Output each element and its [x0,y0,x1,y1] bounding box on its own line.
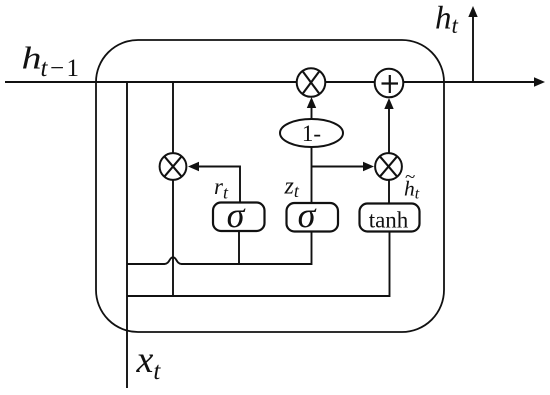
arrowhead into adder [384,98,393,109]
wire A x_t to sigma gates with hop [127,231,312,264]
wire candidate h-tilde vertical [388,109,390,204]
adder circle [375,69,404,98]
svg-text:tanh: tanh [369,208,409,233]
tanh box [360,204,420,232]
wire z vertical through 1- ellipse [311,106,313,203]
wire sigma_r output to left multiplier [198,167,240,203]
wire x_t vertical input [126,82,128,388]
svg-text:1-: 1- [302,121,321,146]
arrowhead h output right [534,77,545,86]
sigma box z gate [287,203,339,232]
cell body rounded rectangle [96,40,444,332]
wire stub to r sigma box [238,230,240,264]
svg-text:h: h [22,40,42,75]
svg-text:t−1: t−1 [41,55,82,82]
svg-text:σ: σ [298,195,317,235]
wire h_t vertical output [472,16,474,82]
svg-text:σ: σ [227,195,246,235]
arrowhead into top multiplier [307,97,316,108]
arrowhead into right multiplier [363,162,374,171]
1- ellipse [280,119,343,147]
wire z branch to right multiplier [312,166,365,168]
svg-text:~: ~ [405,167,415,188]
wire B x_t and r*h to tanh [127,232,390,297]
sigma box r gate [213,203,265,232]
arrowhead into left multiplier [188,162,199,171]
multiplier circle top (1-z)*h [297,68,326,97]
multiplier circle left (r * h) [160,153,187,180]
multiplier circle right (z * htilde) [375,153,402,180]
wire reset branch vertical [172,82,174,296]
arrowhead h_t up [468,6,477,17]
wire h_{t-1} main horizontal line [5,81,536,83]
